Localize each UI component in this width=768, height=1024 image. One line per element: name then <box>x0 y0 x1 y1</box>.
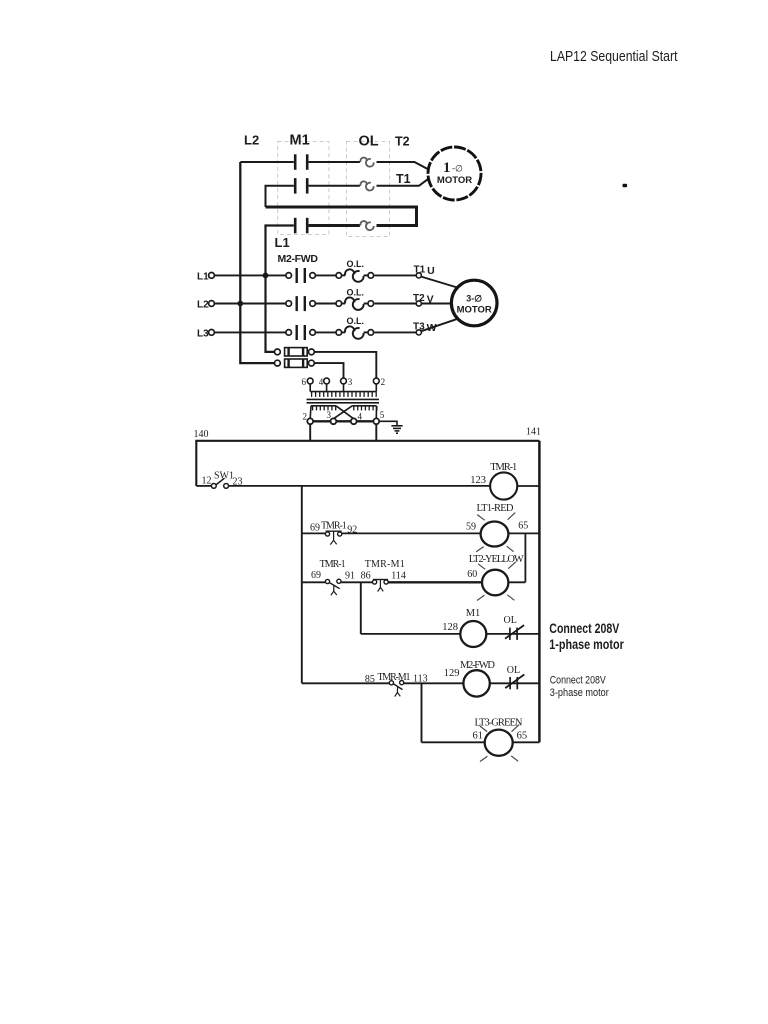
svg-text:T1: T1 <box>396 172 411 186</box>
wire rung1 mid <box>229 485 491 487</box>
contact OL NC rung5 <box>509 677 511 689</box>
wire row2 T1 right into motor <box>377 178 429 185</box>
wire rung1 left <box>196 485 211 487</box>
contact OL NC rung4 <box>509 628 511 640</box>
svg-text:L1: L1 <box>275 235 290 250</box>
wire L3 row after contact <box>316 331 336 333</box>
svg-text:65: 65 <box>518 521 528 532</box>
wire L1 vertical feeder <box>266 226 294 352</box>
svg-text:M2-FWD: M2-FWD <box>460 660 495 671</box>
contact M1 pole2 <box>295 178 307 194</box>
svg-text:TMR-1: TMR-1 <box>320 559 346 570</box>
wire rung6 left <box>422 741 485 743</box>
svg-text:4: 4 <box>319 377 324 387</box>
svg-text:L1: L1 <box>197 272 209 283</box>
svg-text:141: 141 <box>526 427 541 438</box>
contact M2-FWD pole2 <box>286 296 316 311</box>
wire top bus <box>195 440 539 442</box>
wire rung5 right <box>490 682 540 684</box>
svg-text:SW1: SW1 <box>214 471 234 482</box>
OL heater L2 row <box>336 297 374 309</box>
motor M 1-phase <box>428 147 481 200</box>
terminal L3 <box>209 330 215 336</box>
svg-text:60: 60 <box>467 569 477 580</box>
junction dot L2/feederA <box>237 301 243 307</box>
contact M1 pole1 <box>295 154 307 170</box>
svg-text:Connect 208V: Connect 208V <box>549 620 619 636</box>
svg-text:TMR-M1: TMR-M1 <box>365 559 405 570</box>
rung3 LT2-YELLOW <box>302 570 526 596</box>
svg-text:114: 114 <box>391 570 406 581</box>
fuse F1 <box>275 348 377 379</box>
svg-text:3-phase motor: 3-phase motor <box>550 687 609 699</box>
svg-text:3-∅: 3-∅ <box>466 294 482 304</box>
G_TOP <box>278 142 390 237</box>
wire rung3 right <box>508 581 525 583</box>
wire rung2 right <box>508 532 539 534</box>
wire T1 to motor <box>421 277 457 288</box>
wire L1 row after OL <box>375 274 417 276</box>
svg-text:TMR-1: TMR-1 <box>490 462 517 473</box>
svg-text:123: 123 <box>470 475 486 486</box>
xfmr terminal H3 <box>341 378 347 384</box>
contact TMR-1 NO timed 69-91 <box>325 579 329 583</box>
svg-text:128: 128 <box>442 622 458 633</box>
svg-text:2: 2 <box>303 412 308 422</box>
wire L3 row after OL <box>375 331 417 333</box>
rung1 SW1/TMR-1 coil <box>196 472 539 499</box>
xfmr terminal H4 <box>324 378 330 384</box>
wire L1 row after contact <box>316 274 336 276</box>
wire left rail <box>195 441 197 486</box>
xfmr secondary winding right <box>352 405 376 407</box>
svg-text:O.L.: O.L. <box>347 287 365 297</box>
wire rung5 mid <box>404 682 464 684</box>
svg-text:Connect 208V: Connect 208V <box>550 675 607 687</box>
wire T2 to motor <box>421 303 451 305</box>
svg-text:1-phase motor: 1-phase motor <box>549 636 624 652</box>
wire row1 T2 right into motor <box>377 162 429 170</box>
svg-text:4: 4 <box>358 412 363 422</box>
svg-text:65: 65 <box>517 730 528 741</box>
svg-text:6: 6 <box>302 377 307 387</box>
svg-text:23: 23 <box>233 476 243 487</box>
xfmr secondary bus X1 <box>310 420 376 422</box>
svg-text:L2: L2 <box>197 300 209 311</box>
svg-text:O.L.: O.L. <box>347 316 365 326</box>
xfmr terminal X4 <box>351 418 357 424</box>
terminal T1 <box>416 273 421 278</box>
svg-text:MOTOR: MOTOR <box>457 305 492 316</box>
wire fuse F2 to xfmr H3 <box>314 363 343 378</box>
wire L2 vertical feeder <box>240 162 274 363</box>
xfmr primary winding <box>310 391 376 393</box>
OL heater row2 <box>360 181 367 185</box>
wire rung2 left <box>302 532 325 534</box>
svg-text:M1: M1 <box>290 133 310 149</box>
svg-text:86: 86 <box>361 570 371 581</box>
xfmr core <box>307 398 380 400</box>
contact M2-FWD pole1 <box>286 268 316 283</box>
contact M1 pole3 <box>295 218 307 234</box>
svg-text:69: 69 <box>311 570 321 581</box>
svg-text:1: 1 <box>443 160 451 176</box>
wire rung3 mid <box>389 581 483 583</box>
svg-text:59: 59 <box>466 521 476 532</box>
wire drop 65 <box>524 533 526 582</box>
wire fuse F1 to xfmr H2 <box>314 352 376 378</box>
wire rung4 right <box>486 633 539 635</box>
wire L2 row <box>215 303 286 305</box>
svg-text:12: 12 <box>202 475 212 486</box>
svg-text:LT2-YELLOW: LT2-YELLOW <box>469 554 524 565</box>
terminal T3 <box>416 330 421 335</box>
transformer T1 control <box>307 378 380 424</box>
wire L1 row <box>215 274 286 276</box>
svg-text:2: 2 <box>381 377 386 387</box>
OL heater L3 row <box>336 326 374 338</box>
wire rung2 mid <box>342 532 481 534</box>
svg-text:69: 69 <box>310 522 320 533</box>
coil M1 <box>460 621 486 647</box>
lamp LT1 rays <box>476 513 515 552</box>
svg-text:MOTOR: MOTOR <box>437 175 472 186</box>
junction dot L1/feederB <box>263 273 269 279</box>
xfmr primary stubs <box>309 384 311 392</box>
svg-text:61: 61 <box>473 730 484 741</box>
M1 contactor dashed enclosure <box>278 142 329 235</box>
fuse F2 <box>275 359 344 378</box>
wire rung6 right <box>513 741 540 743</box>
lamp LT2-YELLOW <box>482 570 508 596</box>
svg-text:L3: L3 <box>197 329 209 340</box>
wire rung3 gap <box>341 581 372 583</box>
contact TMR-M1 NO timed 85-113 <box>389 681 393 685</box>
OL heater L1 row <box>336 269 374 281</box>
wire drop to LT3 rung <box>421 683 423 742</box>
svg-text:113: 113 <box>413 674 428 685</box>
wire rung1 right <box>517 485 539 487</box>
OL heater row3 <box>360 221 367 225</box>
svg-text:3: 3 <box>348 377 353 387</box>
contact M2-FWD pole3 <box>286 325 316 340</box>
rung6 LT3-GREEN <box>422 730 540 756</box>
svg-text:M2-FWD: M2-FWD <box>278 253 319 265</box>
wire X2 drop to bus <box>309 424 311 440</box>
svg-text:TMR-1: TMR-1 <box>321 520 347 531</box>
wire row2 T1 mid <box>309 185 360 187</box>
terminal T2 <box>416 301 421 306</box>
lamp LT3-GREEN <box>485 730 513 756</box>
wire rung5 left <box>302 682 389 684</box>
svg-text:T2: T2 <box>395 135 410 149</box>
motor M 3-phase <box>451 280 497 326</box>
xfmr terminal H6 <box>307 378 313 384</box>
lamp LT2 rays <box>477 562 516 601</box>
wire T3 to motor <box>421 319 457 331</box>
rung4 M1 coil <box>361 621 540 647</box>
xfmr terminal X3 <box>331 418 337 424</box>
wire rung4 left <box>361 633 461 635</box>
svg-text:140: 140 <box>194 429 209 440</box>
rung5 M2-FWD coil <box>302 670 540 696</box>
wire row1 T2 mid <box>309 161 360 163</box>
wire L2 row after OL <box>375 303 417 305</box>
svg-text:LAP12 Sequential Start: LAP12 Sequential Start <box>550 48 678 65</box>
svg-text:OL: OL <box>359 134 379 150</box>
xfmr secondary winding left <box>311 405 336 407</box>
contact TMR-1 NC timed 69-92 <box>325 532 329 536</box>
svg-text:91: 91 <box>345 570 355 581</box>
coil M2-FWD <box>463 670 489 696</box>
lamp LT3 rays <box>480 725 519 762</box>
svg-text:O.L.: O.L. <box>347 259 365 269</box>
svg-text:92: 92 <box>347 525 357 536</box>
wire L2 row after contact <box>316 303 336 305</box>
svg-text:-∅: -∅ <box>452 164 463 174</box>
svg-text:85: 85 <box>365 674 375 685</box>
switch SW1 <box>211 484 216 489</box>
terminal L1 <box>209 273 215 279</box>
wire row3 thick return <box>266 207 417 226</box>
wire L3 row <box>215 331 286 333</box>
xfmr terminal X5 <box>373 418 379 424</box>
svg-text:LT3-GREEN: LT3-GREEN <box>475 717 523 728</box>
terminal L2 <box>209 301 215 307</box>
wire right rail <box>538 441 541 743</box>
xfmr terminal H2 <box>373 378 379 384</box>
svg-text:3: 3 <box>327 410 332 420</box>
wire row1 T2 left <box>240 161 293 163</box>
xfmr secondary crossover leads <box>309 406 312 419</box>
wire sub-rail <box>301 486 303 683</box>
svg-text:M1: M1 <box>466 608 481 619</box>
wire drop to M1 rung <box>360 582 362 634</box>
xfmr terminal X2 <box>307 418 313 424</box>
lamp LT1-RED <box>481 522 509 547</box>
wire X5 drop to bus <box>375 424 377 440</box>
svg-text:5: 5 <box>380 410 385 420</box>
svg-text:TMR-M1: TMR-M1 <box>378 672 411 683</box>
svg-text:LT1-RED: LT1-RED <box>477 503 514 514</box>
wire rung3 left <box>302 581 325 583</box>
rung2 LT1-RED <box>302 522 540 547</box>
contact TMR-M1 NC timed 86-114 <box>373 580 377 584</box>
svg-text:OL: OL <box>504 615 517 626</box>
OL block dashed enclosure <box>347 142 390 237</box>
wire row2 T1 left drop <box>266 186 294 207</box>
stray dash mark <box>623 184 628 187</box>
svg-text:L2: L2 <box>244 133 259 148</box>
svg-text:OL: OL <box>507 665 520 676</box>
svg-text:129: 129 <box>444 668 460 679</box>
ground symbol <box>379 421 403 433</box>
coil TMR-1 <box>490 472 517 499</box>
OL heater row1 <box>360 158 367 162</box>
